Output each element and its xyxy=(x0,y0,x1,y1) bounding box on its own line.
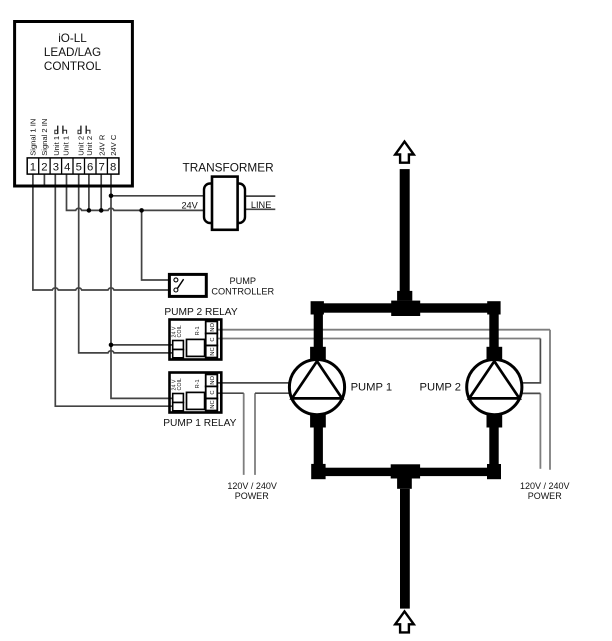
svg-text:NO: NO xyxy=(210,376,216,385)
svg-text:NC: NC xyxy=(210,400,216,408)
svg-text:PUMP 1: PUMP 1 xyxy=(351,382,392,394)
svg-text:Unit 1: Unit 1 xyxy=(52,136,61,156)
svg-text:POWER: POWER xyxy=(528,491,563,501)
svg-text:24V R: 24V R xyxy=(97,134,106,156)
svg-text:CONTROL: CONTROL xyxy=(44,60,102,73)
svg-text:Signal 2 IN: Signal 2 IN xyxy=(40,119,49,156)
svg-text:120V / 240V: 120V / 240V xyxy=(227,481,277,491)
svg-text:LINE: LINE xyxy=(251,200,271,210)
svg-text:PUMP 2 RELAY: PUMP 2 RELAY xyxy=(164,307,237,318)
svg-text:iO-LL: iO-LL xyxy=(58,32,87,45)
svg-text:24V: 24V xyxy=(181,200,198,210)
svg-text:R-1: R-1 xyxy=(195,379,201,388)
svg-text:PUMP: PUMP xyxy=(230,276,257,286)
svg-text:TRANSFORMER: TRANSFORMER xyxy=(183,161,274,175)
svg-text:6: 6 xyxy=(87,161,93,173)
svg-text:5: 5 xyxy=(76,161,82,173)
svg-text:LEAD/LAG: LEAD/LAG xyxy=(44,46,101,59)
svg-text:Signal 1 IN: Signal 1 IN xyxy=(29,119,38,156)
svg-text:R-1: R-1 xyxy=(195,326,201,335)
svg-text:NC: NC xyxy=(210,347,216,355)
svg-text:C: C xyxy=(210,390,216,394)
svg-text:POWER: POWER xyxy=(235,491,270,501)
svg-text:CONTROLLER: CONTROLLER xyxy=(211,287,274,297)
svg-text:120V / 240V: 120V / 240V xyxy=(520,481,570,491)
svg-text:3: 3 xyxy=(53,161,59,173)
svg-text:24V C: 24V C xyxy=(109,134,118,156)
svg-text:2: 2 xyxy=(41,161,47,173)
svg-text:COIL: COIL xyxy=(177,378,183,390)
svg-text:Unit 2: Unit 2 xyxy=(85,136,94,156)
svg-text:PUMP 1 RELAY: PUMP 1 RELAY xyxy=(163,418,236,429)
svg-text:COIL: COIL xyxy=(177,325,183,337)
svg-text:NO: NO xyxy=(210,323,216,332)
svg-text:PUMP 2: PUMP 2 xyxy=(420,382,461,394)
svg-text:C: C xyxy=(210,337,216,341)
svg-text:1: 1 xyxy=(30,161,36,173)
svg-text:Unit 1: Unit 1 xyxy=(61,136,70,156)
svg-text:8: 8 xyxy=(110,161,116,173)
svg-text:4: 4 xyxy=(64,161,70,173)
svg-text:7: 7 xyxy=(99,161,105,173)
